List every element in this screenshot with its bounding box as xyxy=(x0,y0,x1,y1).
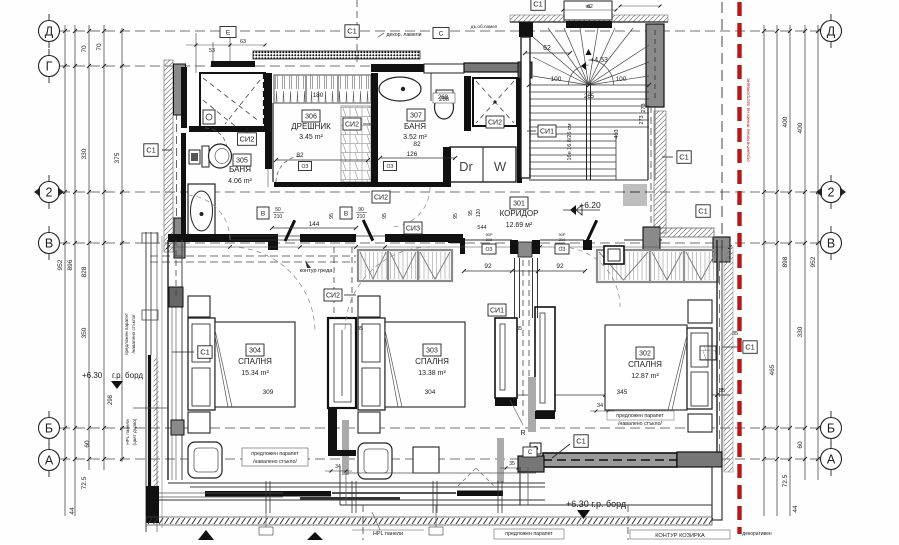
door arc 302 xyxy=(560,247,620,307)
svg-text:ОЗ: ОЗ xyxy=(302,164,309,170)
svg-text:С1: С1 xyxy=(698,207,708,216)
marker box with dot xyxy=(530,443,541,454)
north wall thin lines across openings xyxy=(230,235,300,237)
bed 302 blanket diag xyxy=(610,333,687,410)
svg-text:35: 35 xyxy=(357,326,363,332)
svg-text:35: 35 xyxy=(509,461,515,467)
svg-text:Б: Б xyxy=(827,422,835,436)
door leaf 303 xyxy=(362,219,374,241)
grid circle 2 right xyxy=(821,182,842,203)
window sash bar a xyxy=(205,491,331,497)
svg-text:ОЗ: ОЗ xyxy=(387,164,394,170)
svg-text:ограничителна линия на застроя: ограничителна линия на застрояване xyxy=(747,78,752,162)
svg-text:309: 309 xyxy=(263,389,274,396)
bottom hatch band xyxy=(146,517,712,525)
partition 303-302 black caps xyxy=(495,398,517,406)
grid axis line B horizontal xyxy=(60,427,820,429)
svg-text:ОЗ: ОЗ xyxy=(486,247,493,253)
svg-text:предложен парапет: предложен парапет xyxy=(616,413,664,419)
bed 303 mattress xyxy=(385,322,465,407)
svg-text:предложен парапет: предложен парапет xyxy=(251,451,299,457)
svg-text:92: 92 xyxy=(484,263,492,270)
balcony edge lines left xyxy=(145,232,147,532)
label 304 xyxy=(246,344,264,356)
svg-text:16н 16.8/26 см: 16н 16.8/26 см xyxy=(567,123,573,160)
bed 302 mattress xyxy=(605,325,687,410)
svg-text:БАНЯ: БАНЯ xyxy=(404,122,426,131)
svg-text:70: 70 xyxy=(96,43,103,51)
window rail thin mid xyxy=(332,492,456,494)
label C1 left xyxy=(144,144,158,157)
door arc 304 xyxy=(230,247,315,332)
OZ box corridor a xyxy=(482,244,496,254)
shower 307 diagonal dashes xyxy=(476,81,514,123)
svg-text:305: 305 xyxy=(236,158,248,165)
bathroom 305 toilet xyxy=(202,146,209,167)
label C1 right wall b xyxy=(696,205,710,218)
svg-text:82: 82 xyxy=(413,141,421,148)
svg-text:60: 60 xyxy=(797,441,804,449)
small table 303 xyxy=(413,447,439,473)
dim 92 92 xyxy=(464,270,585,272)
stair outer hatched strip top xyxy=(510,15,668,22)
red restriction dashed line xyxy=(737,2,741,534)
svg-text:95: 95 xyxy=(453,213,459,219)
wardrobe 302 hatch xyxy=(597,250,718,282)
corridor south wall segments xyxy=(431,182,451,187)
svg-text:декоративен: декоративен xyxy=(742,531,772,537)
right dimension line 0 xyxy=(763,25,765,516)
svg-text:С1: С1 xyxy=(576,437,586,446)
bathroom 307 top wall xyxy=(371,64,424,72)
grid circle 2 left xyxy=(39,182,60,203)
balcony edge dashes left inner xyxy=(175,240,177,300)
window sash bar b xyxy=(457,491,503,497)
svg-text:273: 273 xyxy=(641,103,647,112)
top-left dim row xyxy=(186,44,265,46)
label C top small xyxy=(433,28,449,39)
svg-text:44: 44 xyxy=(69,507,76,515)
armchair 304 xyxy=(188,442,222,478)
svg-text:15.34 m²: 15.34 m² xyxy=(241,370,269,377)
bottom small leader box a xyxy=(259,527,273,535)
svg-text:СИ2: СИ2 xyxy=(240,135,255,144)
svg-text:350: 350 xyxy=(81,327,88,338)
svg-text:301: 301 xyxy=(513,201,525,208)
bed 304 mattress xyxy=(215,322,295,407)
svg-text:С: С xyxy=(528,450,533,456)
svg-text:210: 210 xyxy=(486,237,493,242)
dim 35 bottom mid xyxy=(500,467,524,469)
svg-text:413: 413 xyxy=(614,129,620,138)
WC door arc xyxy=(205,128,227,150)
svg-text:34: 34 xyxy=(597,403,603,409)
svg-text:+6.30 г.р. борд: +6.30 г.р. борд xyxy=(566,499,627,509)
svg-text:82: 82 xyxy=(296,152,304,159)
svg-text:Г: Г xyxy=(46,60,53,74)
shower 307 enclosure xyxy=(473,78,517,126)
svg-text:345: 345 xyxy=(617,389,628,396)
svg-text:12.87 m²: 12.87 m² xyxy=(631,373,659,380)
svg-text:В: В xyxy=(261,210,265,217)
gray strip 302 lower xyxy=(497,438,504,483)
terrace right wall down xyxy=(712,467,722,520)
grid circle A left xyxy=(39,450,60,471)
wall below WC xyxy=(189,126,265,132)
svg-text:В: В xyxy=(344,210,348,217)
svg-text:HPL панели: HPL панели xyxy=(125,419,130,445)
dim 144 xyxy=(272,227,356,229)
svg-text:Е: Е xyxy=(226,29,231,36)
svg-text:СПАЛНЯ: СПАЛНЯ xyxy=(415,357,449,366)
svg-text:95: 95 xyxy=(468,210,474,216)
door jamb 302 left xyxy=(583,240,592,250)
closet 306 left boundary xyxy=(272,103,274,182)
wall 306/307 vertical xyxy=(371,73,378,187)
column left bedroom xyxy=(169,287,183,307)
partition 303-302 door panel a xyxy=(495,318,517,398)
bidet box 305 xyxy=(189,150,200,164)
right outer wall bedrooms xyxy=(716,240,718,472)
svg-text:декор. ламели: декор. ламели xyxy=(386,32,421,38)
stair right column xyxy=(646,24,664,107)
right outer hatch strip xyxy=(724,247,733,472)
svg-text:R: R xyxy=(520,430,525,437)
stair landing door white box xyxy=(564,1,612,20)
door leaf 304 xyxy=(284,220,296,242)
svg-text:72.5: 72.5 xyxy=(782,474,789,487)
small box oz2 xyxy=(384,162,397,171)
svg-text:952: 952 xyxy=(810,256,817,267)
bath 307 inner wall line xyxy=(430,64,432,101)
armchair 303 xyxy=(358,443,392,479)
column terrace left xyxy=(518,456,544,472)
column far right wall xyxy=(713,237,730,262)
label B door 50 xyxy=(257,207,269,219)
jamb below 305 wall xyxy=(268,239,278,250)
stair top landing door band xyxy=(566,21,612,28)
wall left inner vertical lower xyxy=(181,133,186,238)
svg-text:35: 35 xyxy=(719,388,725,394)
svg-text:330: 330 xyxy=(81,148,88,159)
column left mid xyxy=(174,218,185,258)
bed 303 pillows xyxy=(362,324,380,362)
svg-text:465: 465 xyxy=(769,364,776,375)
svg-text:А: А xyxy=(827,453,836,467)
bedroom north wall left segment xyxy=(168,234,278,242)
closet 306 shelf hatch right xyxy=(341,106,371,182)
balcony hatch strip left xyxy=(154,358,159,488)
nightstand 302 bottom xyxy=(688,414,712,432)
svg-text:дъ.об.ламел: дъ.об.ламел xyxy=(471,24,498,29)
stair dim 62 xyxy=(525,52,570,54)
svg-text:62: 62 xyxy=(543,45,551,52)
svg-text:3.45 m²: 3.45 m² xyxy=(299,134,323,141)
svg-text:60: 60 xyxy=(84,440,91,448)
svg-text:/навалено стъкло/: /навалено стъкло/ xyxy=(618,421,662,427)
svg-text:СИ2: СИ2 xyxy=(374,195,388,202)
label 302 xyxy=(636,347,654,359)
svg-text:Д: Д xyxy=(827,25,836,39)
grid axis line 2 horizontal xyxy=(60,191,820,193)
label SI3 mid2 xyxy=(404,222,422,234)
door arc bath307 dashes xyxy=(390,187,430,227)
bed 303 blanket diag xyxy=(385,330,402,407)
svg-text:СИ2: СИ2 xyxy=(326,293,340,300)
corridor dashed vertical xyxy=(650,106,652,247)
grid circle V left xyxy=(39,233,60,254)
door opening 305 lower xyxy=(267,169,269,187)
svg-text:306: 306 xyxy=(305,114,317,121)
svg-text:273: 273 xyxy=(639,115,645,124)
svg-text:95: 95 xyxy=(382,213,388,219)
stair treads xyxy=(529,91,649,93)
partition 303-302 gray strip xyxy=(528,377,536,432)
svg-text:/навалено стъкло/: /навалено стъкло/ xyxy=(253,459,297,465)
svg-text:СИ2: СИ2 xyxy=(345,122,359,129)
svg-text:307: 307 xyxy=(410,113,422,120)
insulation dotted band top xyxy=(253,51,420,59)
vent grille xyxy=(623,185,647,205)
edge tag box b xyxy=(142,310,158,320)
svg-text:544: 544 xyxy=(477,225,486,231)
svg-text:100: 100 xyxy=(616,76,627,83)
svg-text:С1: С1 xyxy=(533,0,543,9)
right dimension line 3 xyxy=(804,25,806,480)
grid axis line A horizontal xyxy=(60,458,820,460)
nightstand 304 top xyxy=(188,296,210,317)
stair top dim marks xyxy=(563,9,616,11)
bottom triangle marker xyxy=(198,530,214,540)
closet 306 door arc xyxy=(276,156,302,182)
svg-text:+6.20: +6.20 xyxy=(579,200,601,210)
stair direction arrow xyxy=(586,49,592,55)
svg-text:СПАЛНЯ: СПАЛНЯ xyxy=(628,360,662,369)
svg-text:СПАЛНЯ: СПАЛНЯ xyxy=(238,357,272,366)
svg-text:КОРИДОР: КОРИДОР xyxy=(500,209,539,218)
svg-text:Dr: Dr xyxy=(459,159,473,174)
label C1 right margin xyxy=(743,341,757,354)
svg-text:В: В xyxy=(827,237,835,251)
svg-text:35: 35 xyxy=(732,331,738,337)
bed 302 pillows xyxy=(691,333,708,367)
door arc 303 leaf xyxy=(345,247,430,332)
svg-text:контур греда: контур греда xyxy=(300,268,334,274)
svg-text:С1: С1 xyxy=(745,343,755,352)
svg-text:898: 898 xyxy=(782,256,789,267)
grid circle A right xyxy=(821,449,842,470)
svg-text:HPL панели: HPL панели xyxy=(373,531,403,537)
left dimension line 1 xyxy=(64,25,66,516)
label 306 xyxy=(302,110,320,122)
svg-text:С1: С1 xyxy=(200,348,210,357)
wall below 305 xyxy=(186,234,270,242)
column terrace right xyxy=(677,452,722,467)
label C1 bottom right xyxy=(574,435,588,448)
dim label 268 xyxy=(433,93,455,103)
top axis dashed vertical xyxy=(356,0,358,62)
label SI2 mid xyxy=(372,191,390,203)
bed 304 blanket diag xyxy=(215,330,232,407)
WC right wall dashed xyxy=(263,73,265,128)
wall 307 top-right white xyxy=(424,64,464,73)
wardrobe 303 hatch xyxy=(358,250,452,281)
svg-text:53: 53 xyxy=(209,48,215,54)
closet 306 wardrobe hatch top xyxy=(274,75,371,103)
balcony parapet thick left xyxy=(148,355,151,490)
kontur greda dashed lines xyxy=(150,255,356,257)
WC room top-left outline xyxy=(200,73,265,128)
nightstand 304 bottom xyxy=(188,412,210,433)
bottom small leader box b xyxy=(429,527,443,535)
grid circle D right xyxy=(821,21,842,42)
bed 303 headboard xyxy=(358,318,385,410)
svg-text:2: 2 xyxy=(828,186,835,200)
svg-text:62: 62 xyxy=(587,4,593,10)
dim 82 closet xyxy=(276,159,368,161)
label C1 bed 304 xyxy=(198,346,212,359)
stair winder arc xyxy=(569,65,589,85)
svg-text:298: 298 xyxy=(108,394,114,405)
left dimension line 5 xyxy=(121,28,123,462)
bathroom 307 toilet xyxy=(436,90,453,96)
svg-text:35: 35 xyxy=(516,326,522,332)
WC small sink xyxy=(203,110,215,124)
label B door 90 xyxy=(340,207,352,219)
partition 303-302 door panel b xyxy=(535,307,555,411)
svg-text:50: 50 xyxy=(275,207,281,213)
stair left wall corner black xyxy=(519,22,533,37)
svg-text:304: 304 xyxy=(249,348,261,355)
small box C bottom xyxy=(523,447,537,457)
dim 34 bottom left xyxy=(325,470,352,472)
svg-text:210: 210 xyxy=(274,214,283,220)
partition 303-302 header jambs xyxy=(510,240,518,254)
swing dashes 302 door xyxy=(458,468,476,486)
svg-text:2: 2 xyxy=(46,186,53,200)
right dimension line 1 xyxy=(776,25,778,516)
svg-text:4.06 m²: 4.06 m² xyxy=(228,178,252,185)
svg-text:А: А xyxy=(45,454,54,468)
left dimension line 2 xyxy=(74,25,76,516)
edge tag box a xyxy=(142,233,158,243)
svg-text:304: 304 xyxy=(425,389,436,396)
svg-text:С1: С1 xyxy=(679,153,689,162)
left dimension line 4 xyxy=(103,25,105,470)
svg-text:г.р. борд: г.р. борд xyxy=(112,371,143,380)
wall left inner vertical xyxy=(181,67,187,128)
bedroom north wall seg3 (above wardrobe 303) xyxy=(385,234,463,242)
svg-text:13.38 m²: 13.38 m² xyxy=(418,370,446,377)
svg-text:С: С xyxy=(439,30,444,37)
grid circle G left xyxy=(39,56,60,77)
right dimension line 2 xyxy=(789,25,791,516)
terrace inner step lines xyxy=(340,504,712,506)
svg-text:+4.53: +4.53 xyxy=(590,57,608,64)
svg-text:СИ1: СИ1 xyxy=(490,308,504,315)
right dimension line 4 xyxy=(817,25,819,480)
wall shower right vertical xyxy=(517,78,522,183)
gray shading strip partition xyxy=(342,420,349,475)
column left upper xyxy=(174,64,186,115)
svg-text:126: 126 xyxy=(407,151,418,158)
svg-text:3.52 m²: 3.52 m² xyxy=(403,134,427,141)
bottom outer lines xyxy=(146,499,545,501)
svg-text:С1: С1 xyxy=(146,146,156,155)
svg-text:предложен парапет: предложен парапет xyxy=(505,531,553,537)
svg-text:СИ1: СИ1 xyxy=(540,129,554,136)
washer dryer unit xyxy=(450,147,516,182)
label SI2 wc xyxy=(238,133,257,146)
bottom wall bedroom block thick xyxy=(168,482,545,484)
balcony corner wall bottom-left xyxy=(146,486,159,523)
corridor right wall speckled xyxy=(654,111,666,233)
stair right wall lower xyxy=(647,107,649,180)
wall left dashed cavity line xyxy=(176,64,178,250)
svg-text:С1: С1 xyxy=(347,27,357,36)
label 301 xyxy=(510,197,528,209)
svg-text:95: 95 xyxy=(329,213,335,219)
gray beam top right xyxy=(464,63,530,72)
svg-text:44: 44 xyxy=(792,505,799,513)
text predlozhen parapet mid xyxy=(242,448,308,466)
north wall hatch right section xyxy=(660,228,714,237)
grid circle B right xyxy=(821,418,842,439)
label SI1 stairs xyxy=(538,125,556,137)
grid circle D left xyxy=(39,21,60,42)
label SI2 closet xyxy=(343,118,361,130)
svg-text:92: 92 xyxy=(556,263,564,270)
dim line under wall y247 xyxy=(168,246,730,248)
svg-text:303: 303 xyxy=(426,348,438,355)
svg-text:В: В xyxy=(45,237,53,251)
dim line 345-35 xyxy=(497,394,730,396)
property axis dashed vertical x722 xyxy=(721,2,723,250)
svg-text:210: 210 xyxy=(357,214,366,220)
svg-text:896: 896 xyxy=(67,259,74,270)
label C1 stairs top xyxy=(531,0,545,10)
svg-text:Б: Б xyxy=(45,422,53,436)
svg-text:предложен парапет: предложен парапет xyxy=(124,312,129,355)
label 303 xyxy=(423,344,441,356)
svg-text:/навалено стъкло/: /навалено стъкло/ xyxy=(131,314,136,354)
svg-text:ДРЕШНИК: ДРЕШНИК xyxy=(291,122,331,131)
wall top-left corner bar xyxy=(211,61,255,67)
stair bottom edge xyxy=(529,179,648,181)
bathroom 307 sink oval xyxy=(379,77,421,101)
WC shower dashed diagonals xyxy=(203,78,260,122)
stair outer wall top xyxy=(510,21,668,23)
left outer wall bedrooms xyxy=(167,240,169,480)
svg-text:180: 180 xyxy=(313,92,324,99)
svg-text:90: 90 xyxy=(358,207,364,213)
small marker box 302 xyxy=(700,346,716,360)
stair left wall xyxy=(521,37,530,178)
svg-text:СИЗ: СИЗ xyxy=(406,226,420,233)
wall right of 307 xyxy=(464,76,471,131)
svg-text:144: 144 xyxy=(309,221,320,228)
svg-text:330: 330 xyxy=(797,326,804,337)
bottom sliding panel thin xyxy=(300,497,400,500)
wall 305/306 vertical xyxy=(265,73,272,169)
label C1 top xyxy=(345,25,359,38)
window mullions bottom xyxy=(265,481,267,513)
bed 304 headboard xyxy=(188,318,215,410)
svg-text:828: 828 xyxy=(81,266,88,277)
stair winder radiating lines xyxy=(533,37,589,85)
bed 304 pillows xyxy=(192,324,210,362)
partition pocket walls upper xyxy=(514,258,516,318)
